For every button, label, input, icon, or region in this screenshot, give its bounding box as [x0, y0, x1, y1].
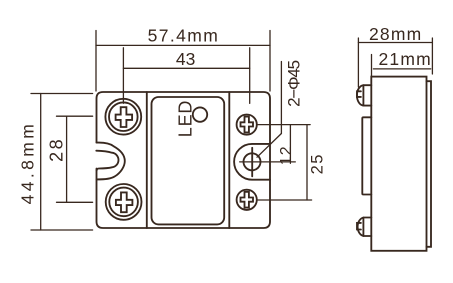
screw M1 inner circle — [109, 102, 138, 131]
dim 12 line — [289, 125, 291, 162]
side screw head T1 silhouette — [357, 85, 371, 105]
svg-text:43: 43 — [176, 49, 195, 69]
screw M1 outer ring (top-left) — [105, 99, 141, 135]
dim 43 left extension — [122, 48, 124, 104]
terminal screw S1 circle (top-right) — [237, 115, 257, 135]
dim 43 right extension — [249, 48, 251, 104]
svg-text:44.8mm: 44.8mm — [18, 121, 38, 205]
mounting notch inner slot — [96, 151, 118, 171]
dim 28mm right extension — [431, 38, 433, 74]
terminal screw S3 cross — [241, 192, 254, 208]
ext from screw S3 — [257, 199, 312, 201]
base plate strip — [427, 81, 432, 247]
dim 57.4mm line — [96, 44, 270, 46]
screw M2 outer ring (bottom-left) — [106, 184, 142, 220]
internal separator line (left) — [146, 92, 148, 228]
body outline (with left-edge mounting notch gap) — [97, 92, 271, 228]
mounting notch outer curve — [97, 143, 125, 180]
dim 28 line (left) — [66, 116, 68, 202]
side screw head T2 silhouette — [358, 218, 372, 237]
dim 28 top extension — [57, 115, 93, 117]
dim 44.8mm top extension — [31, 93, 93, 95]
ext from screw S1 — [257, 124, 310, 126]
side body rectangle — [371, 77, 426, 251]
dim 25 line — [306, 125, 308, 200]
side view dimensions — [358, 38, 432, 87]
svg-text:2−Φ45: 2−Φ45 — [285, 60, 304, 107]
dim 57.4mm left extension — [95, 31, 97, 92]
dim 28 bottom extension — [57, 201, 93, 203]
svg-text:28: 28 — [46, 137, 66, 162]
svg-text:25: 25 — [309, 153, 327, 174]
screw M1 phillips cross — [116, 107, 133, 127]
dim 44.8mm bottom extension — [31, 229, 93, 231]
side screw head T1 flat face — [362, 85, 364, 105]
middle hole circle — [244, 153, 261, 170]
terminal screw S1 cross — [241, 117, 254, 133]
svg-text:12: 12 — [278, 145, 295, 165]
leader 2-phi45 diagonal — [257, 134, 281, 158]
dim 28mm left extension — [357, 38, 359, 87]
middle terminal boss tab — [234, 144, 270, 180]
LED panel — [152, 97, 225, 224]
svg-text:LED: LED — [175, 100, 195, 137]
dim 57.4mm right extension — [269, 31, 271, 92]
side screw head T2 slot — [357, 223, 361, 230]
screw M2 inner circle — [109, 188, 138, 217]
LED indicator circle — [193, 107, 207, 121]
svg-text:28mm: 28mm — [369, 24, 422, 44]
terminal screw S3 circle (bottom-right) — [237, 190, 257, 210]
middle hole crosshair vertical — [251, 148, 253, 177]
svg-text:21mm: 21mm — [378, 49, 431, 69]
dim 28mm line — [358, 42, 432, 44]
screw M2 phillips cross — [116, 192, 132, 212]
left raised block — [362, 117, 371, 194]
svg-text:57.4mm: 57.4mm — [148, 26, 220, 46]
ext from middle hole — [240, 161, 296, 163]
dim 44.8mm line — [40, 94, 42, 231]
dim 21mm line — [373, 68, 430, 70]
dim 43 line — [123, 67, 249, 69]
internal separator line (right) — [228, 92, 230, 228]
side screw head T1 slot — [357, 91, 361, 97]
dim 21mm left extension — [371, 55, 373, 77]
leader 2-phi45 vertical — [280, 62, 282, 134]
side screw head T2 flat face — [362, 218, 364, 237]
